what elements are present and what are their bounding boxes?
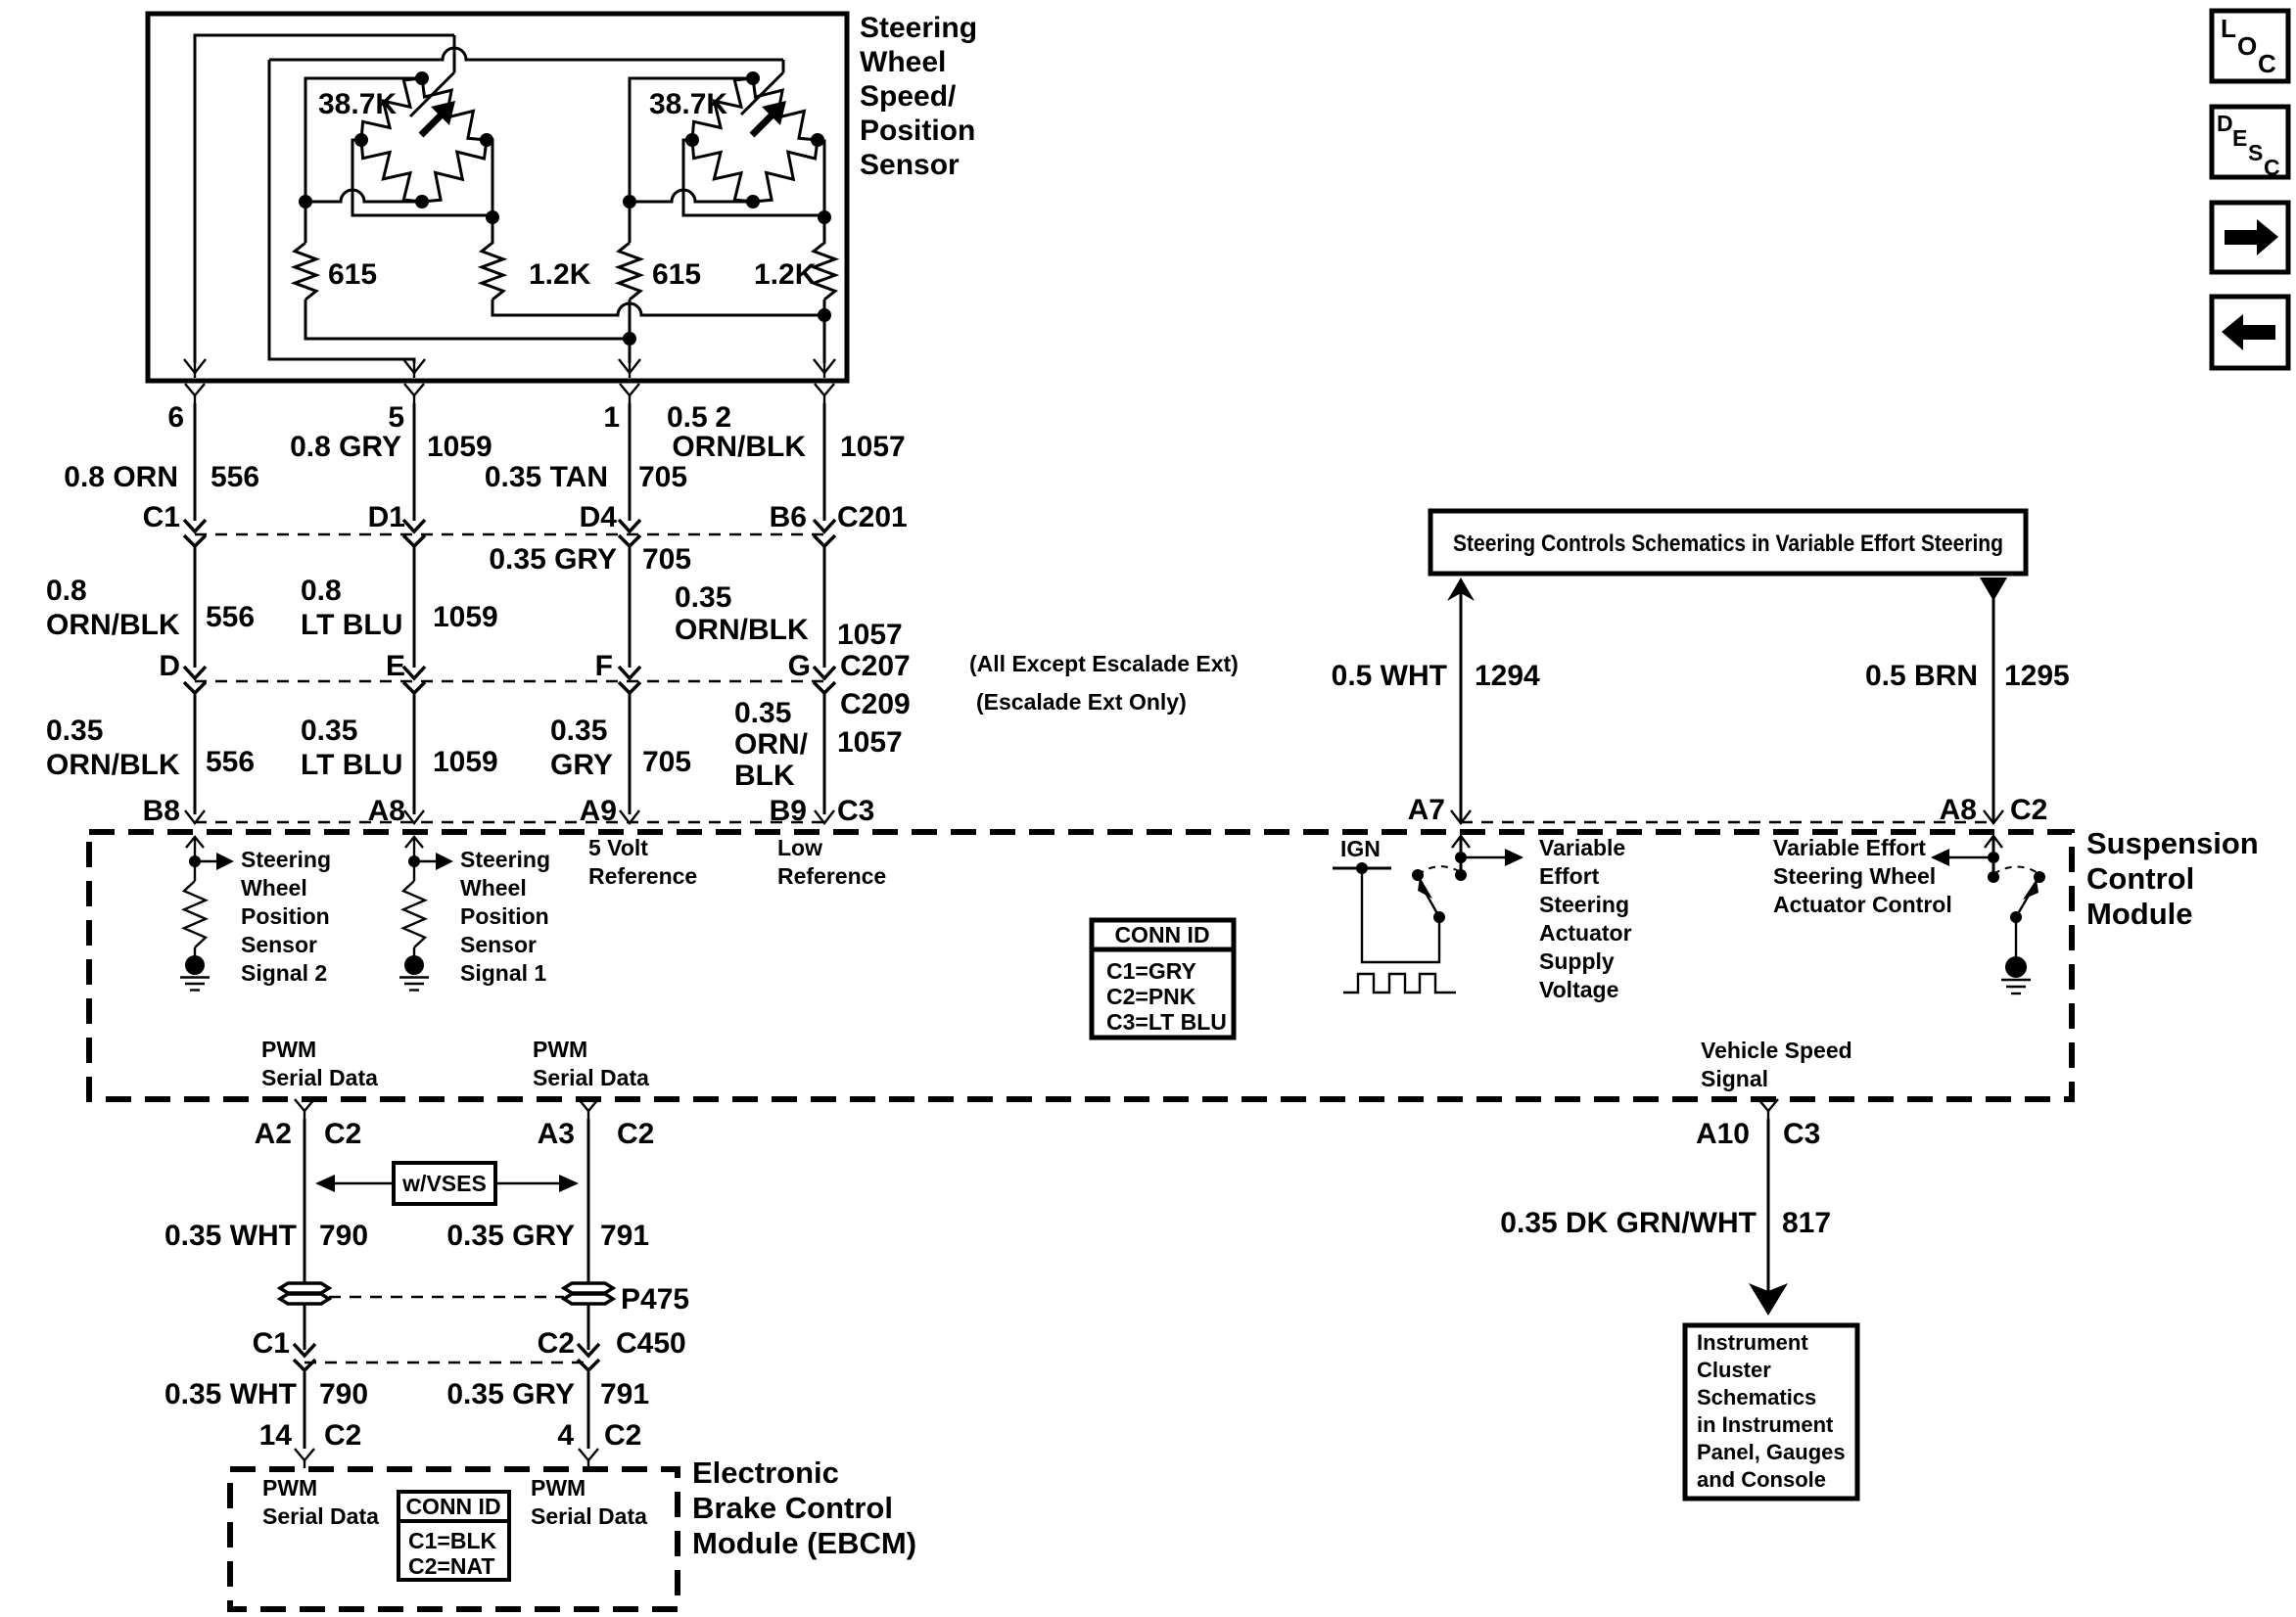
node bridge1 left [354,133,368,147]
node switch2 contact on wire [1988,871,1999,883]
svg-text:F: F [595,650,613,682]
splice dashed link [329,1296,564,1298]
wire wiper2 vertical drop [782,60,785,72]
svg-text:GRY: GRY [550,749,613,781]
svg-text:C2=PNK: C2=PNK [1106,984,1196,1009]
potentiometer bridge bridge2 resistor edge left-bottom [692,140,753,202]
node switch1 contact on wire [1455,869,1467,881]
svg-text:O: O [2237,31,2257,61]
arrow left to variable effort label [1949,856,1993,858]
svg-text:Control: Control [2086,861,2194,896]
node bridge1 top [415,71,429,85]
node A7 junction [1455,852,1467,863]
svg-text:Variable: Variable [1539,835,1625,860]
wire 556 segment2 [194,546,197,668]
svg-text:Signal 2: Signal 2 [241,960,327,986]
svg-text:Instrument: Instrument [1697,1330,1808,1355]
node bridge2 left [685,133,699,147]
svg-text:0.35: 0.35 [46,715,103,747]
wire 791 below splice [587,1304,590,1350]
node signal junction x=423 [408,855,420,867]
svg-text:PWM: PWM [261,1037,316,1062]
connector C207 chevrons at x=423 [403,667,425,678]
svg-text:0.5: 0.5 [667,401,708,434]
svg-text:705: 705 [638,461,687,493]
svg-text:1057: 1057 [837,619,903,651]
module connector entry arrow A7 [1451,810,1471,823]
svg-text:2: 2 [715,401,731,434]
svg-text:0.35 GRY: 0.35 GRY [446,1220,575,1252]
node switch1 contact left [1412,869,1424,881]
arrow up at A7 module entry [1452,836,1470,848]
svg-text:C1: C1 [143,501,180,533]
svg-text:Serial Data: Serial Data [262,1503,379,1529]
svg-text:Steering Controls Schematics i: Steering Controls Schematics in Variable… [1453,531,2003,557]
node switch2 contact right [2034,871,2045,883]
signal input arrow up at x=423 [413,839,415,861]
steering controls schematics box [1430,511,2026,574]
node bridge2 bottom [746,195,760,208]
svg-text:E: E [386,650,405,682]
wire 1057 segment3 [823,693,826,814]
svg-text:615: 615 [652,258,701,291]
svg-text:0.35 TAN: 0.35 TAN [485,461,608,493]
inline connector chevrons wire791 [578,1344,599,1356]
svg-text:Serial Data: Serial Data [533,1065,649,1090]
icon LOC box [2212,11,2288,81]
svg-text:C201: C201 [837,501,908,533]
svg-text:Signal: Signal [1701,1066,1768,1091]
svg-text:Position: Position [241,903,330,929]
ground symbol switch2 [2005,956,2027,978]
svg-text:1.2K: 1.2K [754,258,817,291]
svg-text:LT BLU: LT BLU [301,609,402,641]
svg-text:ORN/BLK: ORN/BLK [672,431,806,463]
svg-text:790: 790 [319,1378,368,1410]
svg-text:1.2K: 1.2K [529,258,591,291]
steering wheel speed/position sensor box [148,14,847,381]
svg-text:Suspension: Suspension [2086,826,2259,860]
svg-text:Steering: Steering [860,12,977,44]
node bridge1 left rail junction [299,195,312,208]
icon DESC box [2212,107,2288,177]
svg-text:C1=BLK: C1=BLK [408,1528,496,1553]
svg-text:A3: A3 [538,1118,575,1150]
arrow right to variable effort label [1461,856,1505,858]
icon arrow left box [2212,297,2288,368]
svg-text:Signal 1: Signal 1 [460,960,546,986]
suspension control module dashed box [89,832,2072,1099]
svg-text:0.35 GRY: 0.35 GRY [446,1378,575,1410]
svg-text:Speed/: Speed/ [860,80,957,113]
svg-text:0.35: 0.35 [734,697,791,729]
svg-text:Wheel: Wheel [241,875,307,901]
module connector entry arrow at x=643 [620,810,639,823]
svg-text:D4: D4 [580,501,618,533]
switch2 dashed arc [1993,867,2039,875]
svg-text:(All Except Escalade Ext): (All Except Escalade Ext) [969,651,1239,676]
svg-text:Voltage: Voltage [1539,977,1618,1002]
node switch1 pivot [1433,911,1445,923]
module connector entry arrow at x=423 [404,810,424,823]
svg-text:A7: A7 [1408,794,1445,826]
node bridge2 inner rect to 1.2K [818,210,831,224]
svg-text:615: 615 [328,258,377,291]
switch1 dashed arc [1418,866,1461,875]
node switch2 pivot [2010,911,2022,923]
splice symbol on wire 791 P475 [564,1283,613,1293]
svg-text:1295: 1295 [2004,660,2070,692]
potentiometer bridge bridge2 resistor edge top-right [753,78,818,140]
svg-text:791: 791 [600,1378,649,1410]
svg-text:C1=GRY: C1=GRY [1106,958,1196,984]
resistor 1.2K second [814,217,835,300]
svg-text:Variable Effort: Variable Effort [1773,835,1926,860]
svg-text:1057: 1057 [840,431,906,463]
svg-text:ORN/BLK: ORN/BLK [46,749,180,781]
svg-text:C: C [2258,49,2276,78]
wire 1295 vertical with down triangle [1992,599,1995,822]
svg-text:0.35: 0.35 [550,715,607,747]
svg-text:D: D [2217,111,2233,136]
ground symbol x=199 [185,955,205,975]
svg-text:Reference: Reference [588,863,697,889]
svg-text:Module (EBCM): Module (EBCM) [692,1526,916,1560]
svg-text:C2: C2 [2010,794,2047,826]
instrument cluster box [1685,1325,1857,1499]
fork A2 below module [295,1099,314,1111]
svg-text:817: 817 [1782,1207,1831,1239]
svg-text:Sensor: Sensor [860,149,960,181]
wire 790 lower [304,1372,306,1449]
svg-text:556: 556 [211,461,259,493]
wire 1.2K first bottom rail with hop over pin1 [492,300,824,315]
wire 615 second bottom continues as pin1 wire [629,300,632,363]
svg-text:14: 14 [259,1419,293,1452]
svg-text:Module: Module [2086,897,2193,931]
svg-text:Vehicle Speed: Vehicle Speed [1701,1038,1852,1063]
wire bridge1 inner rectangle [352,140,492,215]
svg-text:in Instrument: in Instrument [1697,1412,1834,1437]
svg-text:5 Volt: 5 Volt [588,835,648,860]
wire 615 first bottom rail to pin1 [305,300,630,339]
resistor to ground x=423 [413,861,415,881]
conn id table suspension module [1092,920,1234,1038]
inline connector chevrons wire790 [294,1344,315,1356]
svg-text:L: L [2221,14,2236,43]
svg-text:C209: C209 [840,688,911,720]
svg-text:B8: B8 [143,795,180,827]
EBCM dashed box [230,1469,678,1609]
svg-text:C450: C450 [616,1327,686,1360]
svg-text:C2=NAT: C2=NAT [408,1553,494,1579]
svg-text:w/VSES: w/VSES [401,1171,487,1196]
fork at EBCM pin14 [295,1449,314,1460]
svg-text:E: E [2232,125,2247,151]
wire 1059 segment3 [413,693,416,814]
w/VSES box [394,1163,495,1204]
svg-text:Serial Data: Serial Data [531,1503,647,1529]
svg-text:0.8: 0.8 [301,575,342,607]
svg-text:C3: C3 [837,795,874,827]
svg-text:0.8 GRY: 0.8 GRY [290,431,401,463]
wire 705 segment2 [629,546,632,668]
svg-text:ORN/BLK: ORN/BLK [675,614,809,646]
svg-text:C2: C2 [324,1419,361,1452]
connector C201 chevrons at x=842 [814,520,835,531]
ground symbol x=423 [404,955,424,975]
svg-text:Steering: Steering [1539,892,1629,917]
connector fork below sensor pin x=842 [815,384,834,395]
svg-text:and Console: and Console [1697,1467,1826,1492]
svg-text:556: 556 [206,601,255,633]
connector C207 chevrons at x=842 [814,667,835,678]
svg-text:ORN/BLK: ORN/BLK [46,609,180,641]
connector C201 chevrons at x=423 [403,520,425,531]
node bridge1 right [480,133,493,147]
w/VSES arrow right [495,1182,559,1184]
svg-text:Steering: Steering [460,847,550,872]
connector fork below sensor pin x=423 [404,384,424,395]
svg-text:1059: 1059 [433,601,498,633]
svg-text:790: 790 [319,1220,368,1252]
svg-text:Wheel: Wheel [860,46,946,78]
svg-text:1: 1 [603,401,620,434]
wire bridge1 left rail from top node [305,78,422,243]
svg-text:C2: C2 [604,1419,641,1452]
connector C207 dashed line [195,680,824,682]
wire bridge2 left rail from top node [630,78,753,243]
wiper shaft bridge2 [741,72,783,115]
svg-text:0.8: 0.8 [46,575,87,607]
fork A3 below module [579,1099,598,1111]
svg-text:D1: D1 [368,501,405,533]
wire 1294 vertical with up arrow [1460,587,1463,822]
wiper arrow bridge2 [752,115,772,135]
svg-text:556: 556 [206,746,255,778]
svg-text:A2: A2 [255,1118,292,1150]
arrow into box bottom at x=423 [403,359,425,373]
signal arrow right x=199 [195,860,216,862]
arrow into box bottom at x=199 [184,359,206,373]
wire IGN to switch [1362,868,1439,962]
svg-text:38.7K: 38.7K [649,88,727,120]
connector C201 chevrons at x=199 [184,520,206,531]
wire 790 below splice [304,1304,306,1350]
svg-text:IGN: IGN [1340,836,1381,861]
inline connector dashed line C450 [305,1362,588,1363]
module connector thin dashed line right [1461,821,1993,823]
wire 705 segment1 [629,403,632,521]
svg-text:Effort: Effort [1539,863,1600,889]
svg-text:Serial Data: Serial Data [261,1065,378,1090]
svg-text:PWM: PWM [533,1037,587,1062]
module connector thin dashed line left [195,821,824,823]
svg-text:Low: Low [777,835,822,860]
wire 1059 segment1 [413,403,416,521]
svg-text:P475: P475 [621,1283,689,1316]
wire 556 segment3 [194,693,197,814]
potentiometer bridge bridge2 resistor edge top-left [692,78,753,140]
wire 791 from A3 [587,1119,590,1283]
svg-text:Position: Position [460,903,549,929]
resistor to ground x=199 [194,861,196,881]
svg-text:LT BLU: LT BLU [301,749,402,781]
wire 817 from A10 [1767,1119,1770,1294]
potentiometer bridge bridge1 resistor edge top-right [422,78,487,140]
svg-text:(Escalade Ext Only): (Escalade Ext Only) [976,689,1187,715]
potentiometer bridge bridge2 resistor edge bottom-right [753,140,818,202]
svg-text:S: S [2248,140,2263,165]
fork A10 below module [1758,1099,1778,1111]
svg-text:0.35 DK GRN/WHT: 0.35 DK GRN/WHT [1500,1207,1757,1239]
arrow into box bottom at x=842 [814,359,835,373]
node IGN [1356,862,1368,874]
signal input arrow up at x=199 [194,839,196,861]
wire bridge1 bottom node link with hop [305,190,422,202]
conn id table EBCM [398,1492,509,1580]
node signal junction x=199 [189,855,201,867]
svg-text:38.7K: 38.7K [318,88,397,120]
wire pin6 internal: top run and vertical [195,35,454,363]
w/VSES arrow left [335,1182,394,1184]
signal arrow right x=423 [414,860,436,862]
svg-text:D: D [159,650,180,682]
wiper shaft bridge1 [410,72,454,116]
potentiometer bridge bridge1 resistor edge bottom-right [422,140,487,202]
wire pin5 internal horizontal with hop over wiper1 [269,48,783,60]
svg-text:CONN ID: CONN ID [405,1494,500,1519]
wire 1059 segment2 [413,546,416,668]
svg-text:Cluster: Cluster [1697,1358,1771,1382]
fork at EBCM pin4 [579,1449,598,1460]
node A8 junction [1988,852,1999,863]
node 1.2K rail meets pin2 wire [818,308,831,322]
svg-text:4: 4 [557,1419,574,1452]
connector fork below sensor pin x=643 [620,384,639,395]
svg-text:791: 791 [600,1220,649,1252]
node bridge2 right [811,133,824,147]
wire switch2 to ground [2015,917,2017,959]
node bridge1 bottom [415,195,429,208]
wire wiper1 vertical drop [453,35,456,72]
svg-text:Reference: Reference [777,863,886,889]
module connector entry arrow at x=842 [815,810,834,823]
connector C207 chevrons at x=199 [184,667,206,678]
module connector entry arrow at x=199 [185,810,205,823]
svg-text:B6: B6 [770,501,807,533]
wiper arrow bridge1 [421,115,441,135]
svg-text:Sensor: Sensor [241,932,317,957]
svg-text:Schematics: Schematics [1697,1385,1816,1409]
node 615 first rail meets pin1 wire [623,332,636,346]
wire 705 segment3 [629,693,632,814]
svg-text:ORN/: ORN/ [734,728,809,761]
svg-text:Actuator: Actuator [1539,920,1632,946]
wire pin5 internal vertical and bottom jog [269,60,414,363]
svg-text:Supply: Supply [1539,948,1615,974]
svg-text:CONN ID: CONN ID [1114,922,1209,947]
resistor 1.2K first [482,215,503,300]
svg-text:Wheel: Wheel [460,875,527,901]
arrow up at A8 module entry [1985,836,2002,848]
svg-text:1059: 1059 [433,746,498,778]
PWM square wave symbol [1343,974,1456,993]
icon arrow right box [2212,203,2288,272]
svg-text:Steering Wheel: Steering Wheel [1773,863,1936,889]
svg-text:C2: C2 [538,1327,575,1360]
svg-text:0.5 WHT: 0.5 WHT [1332,660,1447,692]
wire 556 segment1 [194,403,197,521]
wire A8-C2 inside module [1992,838,1995,877]
svg-text:0.8 ORN: 0.8 ORN [64,461,178,493]
svg-text:705: 705 [642,746,691,778]
potentiometer bridge bridge1 resistor edge left-bottom [361,140,422,202]
wire 1057 segment1 [823,403,826,521]
connector fork below sensor pin x=199 [185,384,205,395]
svg-text:1059: 1059 [427,431,492,463]
wire 1057 segment2 [823,546,826,668]
svg-text:Panel, Gauges: Panel, Gauges [1697,1440,1846,1464]
svg-text:PWM: PWM [531,1475,586,1501]
svg-text:PWM: PWM [262,1475,317,1501]
IGN supply bar [1333,867,1391,870]
svg-text:Steering: Steering [241,847,331,872]
svg-text:6: 6 [167,401,184,434]
svg-text:0.35: 0.35 [675,581,731,614]
svg-text:C3=LT BLU: C3=LT BLU [1106,1009,1227,1035]
wire 791 lower [587,1372,590,1449]
svg-text:Position: Position [860,115,975,147]
svg-text:BLK: BLK [734,760,795,792]
svg-text:1294: 1294 [1475,660,1540,692]
module connector entry arrow A8-C2 [1984,810,2003,823]
wire bridge2 inner rectangle [683,140,824,215]
svg-text:C: C [2264,155,2280,180]
svg-text:C1: C1 [253,1327,290,1360]
svg-text:Sensor: Sensor [460,932,537,957]
node bridge2 left rail junction [623,195,636,208]
node bridge2 top [746,71,760,85]
svg-text:A10: A10 [1696,1118,1750,1150]
connector C201 chevrons at x=643 [619,520,640,531]
svg-text:1057: 1057 [837,726,903,759]
splice symbol on wire 790 [280,1283,329,1293]
wire 1.2K second bottom continues as pin2 wire [823,300,826,363]
arrow into box bottom at x=643 [619,359,640,373]
svg-text:C207: C207 [840,650,911,682]
svg-text:0.35: 0.35 [301,715,357,747]
svg-text:5: 5 [388,401,404,434]
svg-text:705: 705 [642,543,691,576]
svg-text:0.35 WHT: 0.35 WHT [164,1378,297,1410]
potentiometer bridge bridge1 resistor edge top-left [361,78,422,140]
svg-text:0.5 BRN: 0.5 BRN [1865,660,1978,692]
wire 790 from A2 [304,1119,306,1283]
resistor 615 second [619,243,640,300]
wire A7 inside module [1460,838,1463,875]
switch1 blade with arrow [1426,893,1439,917]
svg-text:Actuator Control: Actuator Control [1773,892,1952,917]
svg-text:Electronic: Electronic [692,1455,839,1490]
wire bridge2 bottom node link with hop [630,190,753,202]
switch2 blade with arrow [2016,894,2030,917]
connector C201 dashed line [195,533,824,535]
node bridge1 inner rect to 1.2K [486,210,499,224]
svg-text:G: G [788,650,811,682]
svg-text:C2: C2 [617,1118,654,1150]
svg-text:Brake Control: Brake Control [692,1491,893,1525]
